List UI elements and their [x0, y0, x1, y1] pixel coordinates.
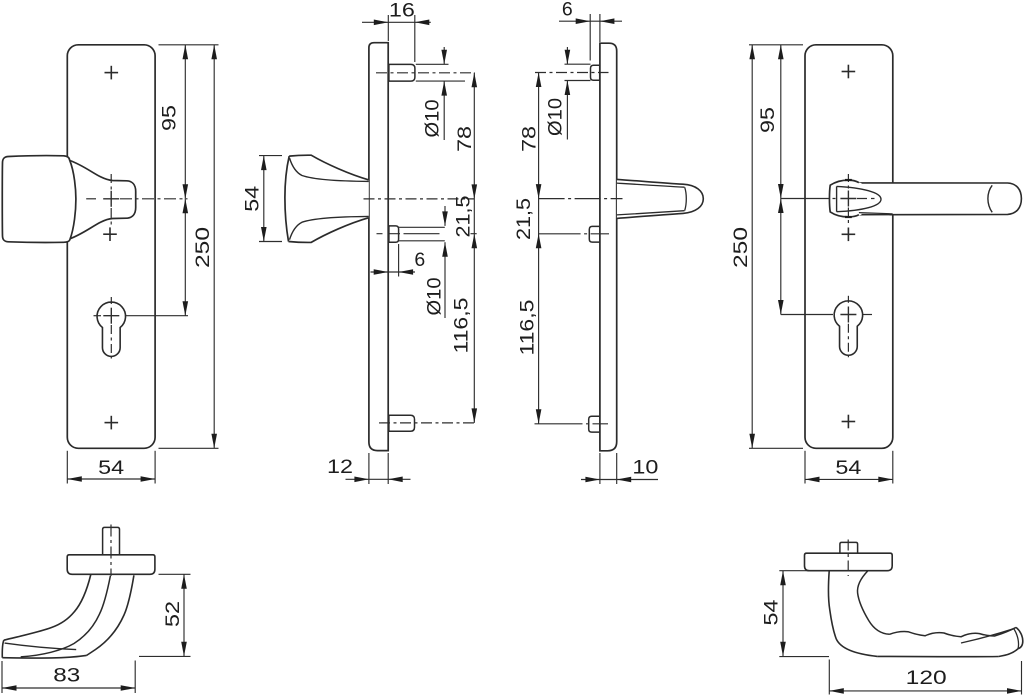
- lever L4 bar fill: [859, 183, 1022, 215]
- keyhole euro profile P4: [834, 301, 863, 355]
- knob K1 face front view: [2, 156, 76, 243]
- knob grip F5 bottom edge: [2, 655, 86, 658]
- svg-text:52: 52: [162, 601, 184, 627]
- dimension 54 F6: [779, 571, 829, 657]
- svg-text:10: 10: [632, 457, 658, 479]
- dimension 95 extension top P4: [749, 44, 803, 46]
- knob center cross P1: [103, 191, 119, 207]
- keyhole centerlines P1: [94, 297, 189, 359]
- keyhole euro profile P1: [97, 302, 126, 356]
- lever spindle F6: [840, 542, 858, 553]
- lever L4 bottom inner line: [859, 213, 893, 214]
- screw cross below knob P1: [103, 227, 117, 241]
- svg-text:6: 6: [562, 0, 573, 21]
- top fixing bolt S2: [389, 64, 415, 81]
- lever spindle centerline F6: [847, 540, 849, 577]
- lever L4 collar fill: [829, 180, 861, 217]
- screw cross bottom P4: [842, 415, 856, 429]
- keyhole centerlines P4: [848, 296, 872, 358]
- dimension 83 F5: [2, 661, 135, 694]
- collar tick bottom P4: [845, 216, 852, 218]
- dimension 78 S2 + stacked dims 21,5 / 116,5: [472, 73, 478, 423]
- dimension 16 top S2: [362, 15, 431, 62]
- lever L4 collar outline: [829, 180, 858, 217]
- knob grip F5 outer right curve: [87, 575, 134, 655]
- plate P4 outline: [805, 45, 893, 449]
- svg-text:12: 12: [327, 456, 353, 478]
- svg-text:Ø10: Ø10: [424, 277, 446, 315]
- knob spindle centerline F5: [110, 525, 112, 577]
- dimension 10 bottom S3: [581, 453, 658, 484]
- svg-text:116,5: 116,5: [517, 299, 539, 355]
- lever grip F6 fill: [828, 571, 1022, 657]
- lever grip F6 wavy top: [890, 627, 1017, 636]
- top screw head S3: [591, 65, 600, 80]
- lever L4 bar outline: [858, 183, 1021, 215]
- dimension 54 bottom P1: [67, 451, 155, 484]
- svg-text:250: 250: [192, 227, 214, 268]
- lever grip F6 tip end face: [1016, 627, 1023, 648]
- dimension 54 bottom P4: [805, 451, 893, 484]
- screw cross top P1: [105, 66, 119, 80]
- svg-text:250: 250: [730, 227, 752, 268]
- lever flange F6: [805, 553, 893, 571]
- dimension 95 line P1: [183, 45, 189, 316]
- svg-text:6: 6: [414, 249, 425, 271]
- screw cross below lever P4: [842, 228, 856, 242]
- top screw shank ext lines S3: [565, 64, 591, 80]
- knob grip F5 outer left curve: [4, 575, 91, 641]
- dimension 95 extension line top P1: [159, 44, 219, 46]
- svg-text:116,5: 116,5: [451, 297, 473, 353]
- dimension 250 line P1: [211, 45, 217, 449]
- dimension connector keyhole P4: [781, 314, 833, 316]
- knob K1 neck+tip fill: [70, 161, 136, 239]
- dimension 95 line P4: [778, 45, 784, 315]
- lever grip F6 tip bottom curl: [999, 649, 1018, 657]
- plate P2 profile: [369, 43, 388, 451]
- lever L3 side outline: [617, 179, 703, 218]
- dimension 52 F5: [139, 574, 191, 656]
- dimension O10 top S3: [565, 47, 571, 140]
- bolt centerline bottom S2: [379, 422, 474, 424]
- middle screw centerline S3: [539, 233, 609, 235]
- lever center cross P4: [840, 191, 856, 207]
- svg-text:Ø10: Ø10: [422, 99, 444, 137]
- middle screw head S2: [389, 226, 399, 242]
- svg-text:95: 95: [159, 105, 181, 131]
- dimension O10 top S2: [416, 47, 465, 140]
- dimension 250 extension bottom P4: [749, 447, 803, 449]
- svg-text:120: 120: [906, 667, 947, 689]
- svg-text:95: 95: [757, 107, 779, 133]
- knob spindle F5: [103, 527, 120, 555]
- svg-text:54: 54: [242, 186, 264, 212]
- knob K2 side fill: [285, 155, 369, 242]
- dimension 95 connector to lever P4: [781, 198, 818, 200]
- bottom screw head S3: [589, 416, 600, 432]
- knob centerlines P1: [86, 174, 187, 226]
- lever grip F6 tip inner groove: [961, 629, 1014, 643]
- middle screw centerline S2: [377, 233, 477, 235]
- svg-text:78: 78: [454, 126, 476, 152]
- bolt centerline top S2: [376, 72, 475, 74]
- dimension 120 F6: [829, 660, 1021, 695]
- plate P3 profile: [600, 43, 617, 451]
- svg-text:54: 54: [760, 599, 782, 625]
- knob grip F5 middle curve: [21, 576, 111, 657]
- knob K1 neck+tip outline: [70, 161, 136, 239]
- lever centerline S3: [539, 198, 623, 200]
- keyhole center cross P1: [103, 308, 119, 324]
- svg-text:Ø10: Ø10: [545, 98, 567, 136]
- lever L4 collar slab line: [836, 186, 838, 211]
- dimension 6 top S3: [559, 14, 622, 61]
- svg-text:21,5: 21,5: [452, 195, 474, 237]
- dimension 54 knob S2: [259, 156, 282, 242]
- knob K2 inner silhouette lines: [290, 158, 369, 240]
- svg-text:54: 54: [835, 457, 861, 479]
- lever L4 collar egg arc: [837, 186, 881, 211]
- dimension 6 middle S2: [371, 244, 416, 277]
- lever grip F6 thumb notch curve: [857, 571, 889, 634]
- bottom fixing bolt S2: [389, 415, 415, 431]
- knob K2 side outline: [285, 155, 369, 242]
- svg-text:83: 83: [53, 665, 80, 687]
- middle screw head S3: [589, 226, 600, 242]
- bottom screw centerline S3: [535, 423, 609, 425]
- screw cross bottom P1: [105, 416, 119, 430]
- dimension 250 line P4: [749, 45, 755, 449]
- svg-text:21,5: 21,5: [513, 198, 535, 240]
- lever L3 side fill: [617, 179, 703, 218]
- dimension 12 bottom S2: [346, 453, 411, 484]
- middle screw shank lines S2: [399, 227, 445, 241]
- knob grip F5 fill: [2, 574, 134, 658]
- lever grip F6 bottom edge: [877, 655, 998, 657]
- lever L4 tip inner arc: [988, 185, 992, 212]
- knob flange F5: [67, 555, 155, 575]
- knob grip F5 end cap: [2, 640, 4, 658]
- plate P1 outline: [67, 45, 155, 449]
- collar tick top P4: [845, 179, 852, 181]
- svg-text:16: 16: [389, 0, 415, 22]
- lever grip F6 tip inner curl line: [1014, 629, 1019, 649]
- lever grip F6 left edge: [828, 571, 877, 657]
- dimension 250 extension line bottom P1: [159, 447, 219, 449]
- lever L3 inner lines: [617, 183, 686, 215]
- lever centerlines P4: [818, 174, 875, 226]
- knob grip F5 inner line: [5, 643, 77, 650]
- knob centerline S2: [364, 198, 475, 200]
- dimension 78 S3 + stacked dims 21,5 / 116,5: [536, 73, 542, 424]
- svg-text:78: 78: [519, 126, 541, 152]
- dimension O10 middle S2: [442, 206, 448, 318]
- keyhole center cross P4: [840, 307, 856, 323]
- screw centerline top S3: [535, 72, 609, 74]
- svg-text:54: 54: [98, 457, 124, 479]
- screw cross top P4: [842, 65, 856, 79]
